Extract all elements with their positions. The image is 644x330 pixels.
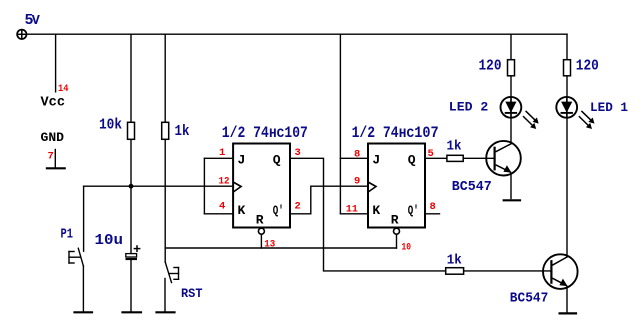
wire J2/K2 tie to 5V rail [339,34,341,214]
svg-text:11: 11 [346,204,358,216]
svg-text:120: 120 [576,58,599,75]
capacitor C1 10u [126,245,141,259]
svg-text:1/2 74: 1/2 74 [222,124,269,142]
wire Q'1 pin 2 to FF2 clock [290,186,368,214]
node 5V terminal [17,30,26,39]
wire K2 pin 11 stub [340,213,368,215]
wire K1 pin 4 stub [204,213,233,215]
svg-text:107: 107 [284,124,307,142]
svg-text:13: 13 [264,238,275,250]
svg-text:Q': Q' [273,203,284,218]
svg-text:1k: 1k [447,253,462,269]
wire LED2 branch from rail [510,34,512,60]
svg-text:9: 9 [354,176,360,188]
junction clock/RC node [129,184,134,189]
svg-text:HC: HC [269,126,284,141]
svg-text:BC547: BC547 [510,291,549,307]
ground bar under C1 [123,311,142,313]
diode LED 2 [501,97,539,129]
ground bar under P1 [75,311,93,313]
ground bar Q1 emitter [503,199,521,201]
wire J1 pin 1 stub [204,157,233,159]
resistor R4 120 LED1 [564,60,571,76]
ground bar Q2 emitter [559,312,578,314]
svg-text:5: 5 [428,148,434,160]
resistor R2 1k pullup [162,122,169,139]
switch RST lever [165,262,171,283]
wire Q2 emitter to ground [566,286,568,313]
svg-text:10u: 10u [95,232,124,249]
svg-text:Q': Q' [408,203,419,218]
svg-text:2: 2 [295,201,301,213]
wire J2 pin 8 stub [340,157,368,159]
wire RST lower to ground [164,279,166,313]
svg-text:1k: 1k [175,123,190,140]
diode LED 1 [556,97,594,129]
svg-text:8: 8 [430,201,436,213]
wire J1/K1 tie bus [203,158,205,214]
wire top 5V rail [27,33,567,35]
svg-text:K: K [372,203,380,218]
svg-text:R: R [391,212,399,227]
svg-text:4: 4 [219,201,225,213]
wire LED1 branch from rail [566,34,568,60]
svg-text:V: V [32,14,41,29]
svg-text:Q: Q [408,152,416,167]
svg-text:3: 3 [295,147,301,159]
resistor R6 1k base Q2 [446,268,464,275]
switch RST contact bracket [178,268,180,280]
wire FF2 R pin 10 drop [396,234,398,248]
switch P1 contact bracket [68,252,70,264]
svg-text:1: 1 [219,147,225,159]
svg-text:LED 2: LED 2 [449,101,489,115]
svg-text:K: K [238,203,246,218]
svg-text:J: J [372,152,380,167]
resistor R5 1k base Q1 [447,155,463,161]
svg-text:14: 14 [58,83,69,95]
svg-text:BC547: BC547 [452,179,492,195]
resistor R3 120 LED2 [508,60,515,76]
wire reset net R line [165,247,396,249]
wire Q1 pin 3 to transistor Q2 base resistor [290,158,446,271]
svg-text:RST: RST [181,287,203,301]
op-amp U1 flip-flop 1/2 74HC107 FF1 box [233,144,290,235]
wire capacitor to ground [130,260,132,312]
svg-text:R: R [256,212,264,227]
svg-text:107: 107 [414,124,438,142]
svg-text:GND: GND [41,130,65,145]
wire Q'2 stub pin 8 [425,213,440,215]
svg-text:J: J [238,152,246,167]
wire FF1 R pin 13 drop [260,234,262,248]
transistor Q2 BC547 lower [543,254,578,313]
ground bar under RST [157,311,175,313]
svg-text:1k: 1k [447,138,462,154]
resistor R1 10k [128,122,135,139]
wire Q1 emitter to ground [510,172,512,199]
R1 reset bubble FF1 [258,228,264,234]
svg-text:8: 8 [354,148,360,160]
wire Vcc pin 14 stub [55,34,57,92]
wire P1 drop [83,186,85,251]
wire P1 lower to ground [82,266,84,312]
svg-text:LED 1: LED 1 [590,101,628,115]
wire 1k branch from rail down to RST switch [164,34,166,262]
svg-text:12: 12 [219,176,230,188]
svg-text:10k: 10k [99,117,122,134]
svg-text:P1: P1 [61,227,74,243]
svg-text:Vcc: Vcc [41,95,66,111]
R2 reset bubble FF2 [394,228,400,234]
wire clock net horizontal P1/RC to FF1 clock [84,185,234,187]
ground GND pin 7 symbol [54,150,56,169]
switch P1 lever [78,248,83,266]
svg-text:10: 10 [402,242,412,254]
clock chevron FF2 [368,182,376,192]
svg-text:120: 120 [479,58,502,75]
wire Q2 pin 5 to 1k base resistor [425,157,447,159]
transistor Q1 BC547 upper [486,141,521,200]
svg-text:7: 7 [48,150,54,162]
op-amp U2 flip-flop 1/2 74HC107 FF2 box [368,144,425,235]
svg-text:1/2 74: 1/2 74 [352,124,399,142]
svg-text:Q: Q [273,152,281,167]
clock chevron FF1 [233,182,241,192]
wire 10k branch from rail through resistor to capacitor [130,34,132,254]
svg-text:HC: HC [399,126,414,141]
